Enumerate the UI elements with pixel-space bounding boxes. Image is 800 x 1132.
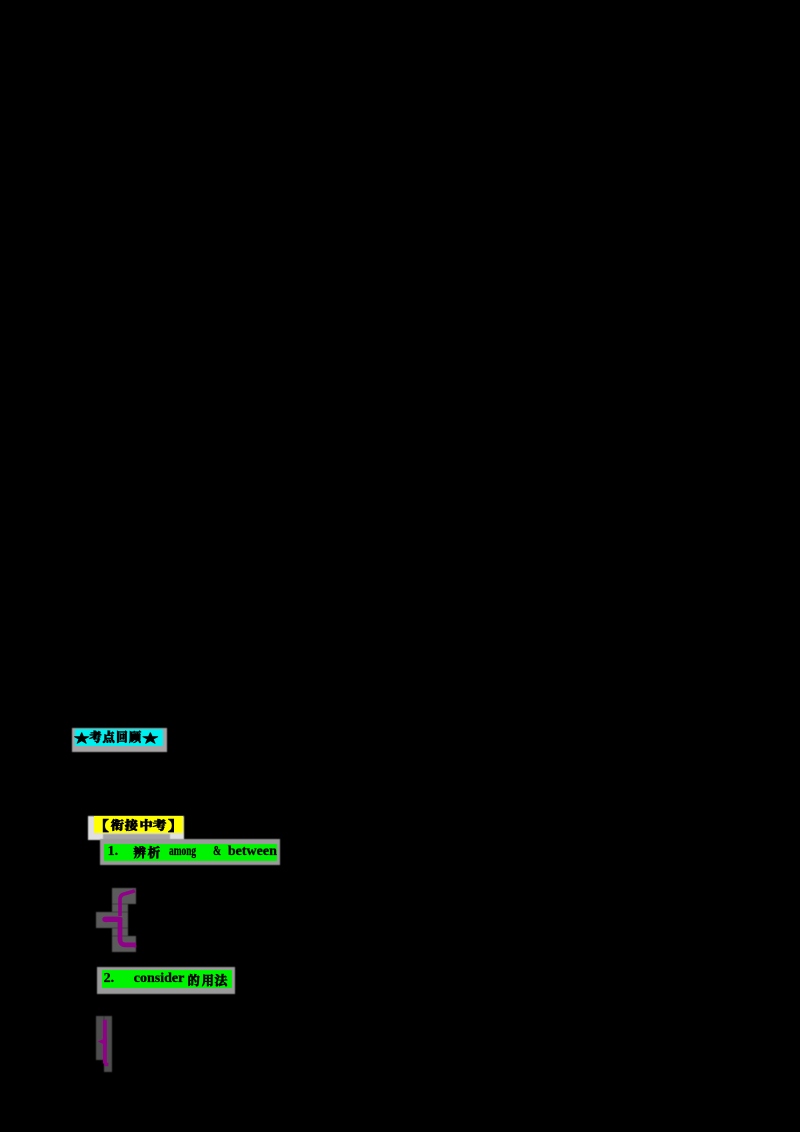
item 2 label 的用法 [189,974,228,986]
gray halo behind green item 2 [97,967,235,994]
cyan highlight box [75,729,163,746]
heading text ★考点回顾★ [75,731,158,743]
yellow highlight box [94,816,183,833]
item 1 label 辨析 [134,846,160,858]
item 1 text between [228,844,277,860]
item 1 number [108,844,119,860]
item 2 number [104,971,115,987]
light gray halo behind yellow heading [88,816,184,840]
heading text 【衔接中考】 [103,819,173,832]
gray halo behind green item 1 [100,839,280,865]
green highlight box 1 [104,844,277,862]
item 1 text & [213,844,221,860]
purple vertical brace [98,1020,109,1065]
gray jpeg halo blocks around small vertical brace [96,1016,104,1060]
gray jpeg halo blocks around curly brace [112,888,136,904]
gray strip under yellow heading [103,834,170,841]
green highlight box 2 [102,970,232,989]
gray jpeg-halo behind cyan heading [72,728,167,752]
purple curly brace [102,891,135,948]
item 1 text among [169,844,196,860]
item 2 text consider [134,971,185,987]
